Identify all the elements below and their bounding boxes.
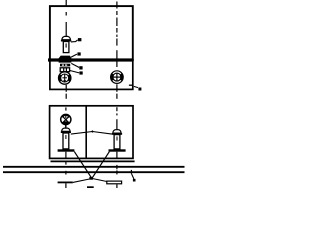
lower right bolt shank bbox=[114, 135, 120, 149]
lower right rest pad bbox=[109, 149, 126, 151]
tent leader between bolts bbox=[71, 132, 112, 135]
leader D2 bbox=[92, 152, 109, 178]
rest button symbol left bbox=[58, 72, 70, 84]
corner tick upper right bbox=[129, 84, 132, 86]
lower view divider bbox=[85, 106, 87, 159]
lower right bolt center mark bbox=[116, 137, 118, 141]
table line 1 bbox=[3, 166, 185, 168]
centerline right upper bbox=[116, 2, 118, 99]
leader square S1 bbox=[77, 52, 80, 55]
leader square S4 bbox=[138, 88, 141, 91]
centerline left lower bbox=[65, 107, 67, 188]
lower view body outline bbox=[50, 106, 133, 159]
bottom flat pad outline bbox=[107, 181, 122, 184]
knob stem bbox=[65, 124, 67, 128]
lower left bolt flange bbox=[61, 131, 71, 133]
bolt head dome upper bbox=[62, 36, 71, 39]
leader 3 from nut row2 bbox=[69, 70, 79, 73]
leader square S0 bbox=[78, 38, 82, 41]
bottom left pad bar bbox=[58, 182, 73, 184]
bolt flange upper bbox=[61, 40, 71, 42]
rest button symbol right bbox=[111, 71, 124, 84]
clamp nose blob bbox=[59, 56, 72, 63]
apex arrow bbox=[89, 177, 93, 180]
bolt shank upper bbox=[63, 42, 69, 53]
base plate line bbox=[51, 160, 135, 162]
leader to bolt head bbox=[71, 40, 78, 42]
centerline right lower bbox=[116, 107, 118, 188]
tent apex diamond bbox=[91, 130, 94, 133]
table line 2 bbox=[3, 171, 185, 173]
lower right bolt flange bbox=[112, 133, 122, 135]
hook square bbox=[133, 179, 136, 182]
lower left bolt center mark bbox=[65, 135, 67, 139]
upper view body outline bbox=[50, 6, 133, 60]
nut row 2 bbox=[60, 68, 69, 72]
nut row 1 bbox=[60, 64, 70, 67]
lower right bolt dome bbox=[113, 130, 121, 133]
leader D1 bbox=[74, 152, 91, 179]
lower left rest pad bbox=[58, 149, 75, 151]
bottom thick dash bbox=[87, 186, 94, 188]
leader square S2 bbox=[79, 66, 82, 69]
bolt shank center mark bbox=[65, 43, 67, 47]
upper view lower body outline bbox=[50, 60, 133, 90]
leader 1 from blob bbox=[71, 54, 77, 57]
centerline left upper bbox=[65, 0, 67, 99]
bottom leader left bbox=[73, 179, 92, 183]
leader square S3 bbox=[79, 71, 82, 74]
bottom leader right bbox=[92, 179, 107, 182]
lower left bolt shank bbox=[63, 133, 69, 149]
knob circle bbox=[61, 114, 71, 124]
thick clamp bar bbox=[48, 58, 134, 61]
hook diagonal bbox=[132, 174, 134, 179]
corner leader bbox=[134, 86, 138, 87]
hook tick at table line 2 bbox=[130, 170, 132, 174]
leader 2 from nut bbox=[71, 63, 79, 67]
lower left bolt dome bbox=[62, 128, 70, 131]
